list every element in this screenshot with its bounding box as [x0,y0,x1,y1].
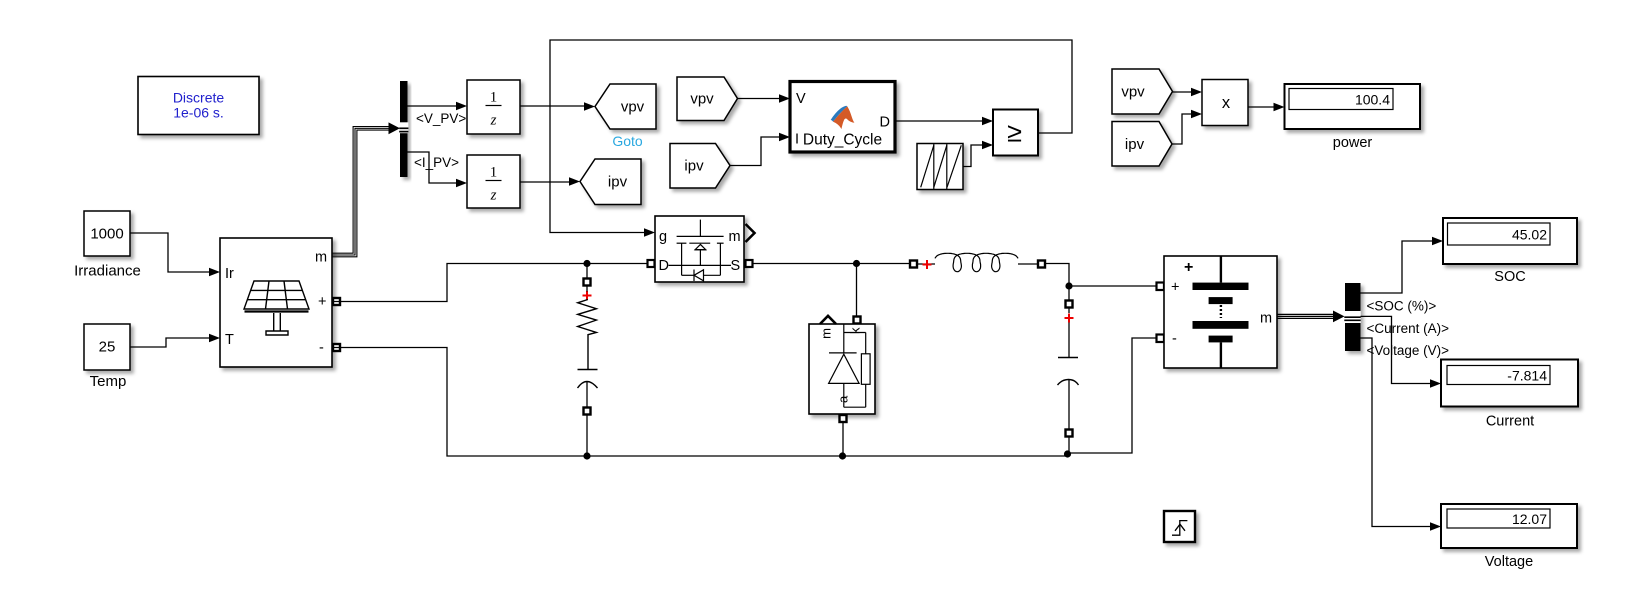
svg-text:-7.814: -7.814 [1507,368,1547,384]
Goto tag vpv [595,84,656,149]
inductor coil [918,253,1038,271]
battery icon [1193,256,1249,368]
unit delay block 2 (1/z) [467,155,520,208]
svg-text:T: T [225,332,234,348]
svg-text:<I_PV>: <I_PV> [414,155,459,170]
wire bus selector 2 to Current display [1361,316,1442,387]
svg-text:a: a [836,395,851,403]
svg-text:vpv: vpv [621,99,645,116]
PV array solar panel icon [244,281,309,335]
inductor left port [910,261,917,268]
output capacitor branch [1058,286,1079,454]
node junction bottom rail at output capacitor [1064,450,1071,457]
svg-text:ipv: ipv [1125,136,1145,153]
wire unit delay 1 to Goto vpv [520,102,595,111]
svg-text:Temp: Temp [90,373,127,390]
svg-text:100.4: 100.4 [1355,92,1390,108]
svg-text:m: m [729,229,741,245]
svg-text:V: V [796,91,806,107]
svg-text:1000: 1000 [90,226,123,243]
diode m measurement chevron [820,316,836,324]
From tag ipv (left) [670,144,730,189]
wire inductor to battery + [1046,264,1157,287]
svg-text:Duty_Cycle: Duty_Cycle [803,132,882,149]
wire bus selector 1 out1 to unit delay 1 [408,102,468,111]
svg-text:Goto: Goto [612,133,643,149]
MATLAB logo in Duty_Cycle [831,106,855,129]
svg-text:z: z [490,113,497,129]
svg-text:<Voltage (V)>: <Voltage (V)> [1367,343,1450,358]
svg-text:+: + [1171,280,1179,296]
wire Temp to PV T [130,334,220,347]
svg-text:vpv: vpv [690,91,714,108]
svg-text:Voltage: Voltage [1485,554,1533,570]
svg-text:z: z [490,188,497,204]
MOSFET m output chevron [746,224,755,242]
wire diode branch down from rail [856,264,858,317]
wire MOSFET S to inductor [753,263,910,265]
From tag vpv (right) [1112,69,1173,114]
svg-text:power: power [1333,135,1373,151]
svg-text:vpv: vpv [1121,84,1145,101]
bus wire PV m to bus selector 1 [332,127,391,257]
svg-text:+: + [318,294,326,310]
From tag ipv (right) [1112,122,1172,167]
wire From vpv to product [1173,88,1203,97]
svg-text:Ir: Ir [225,266,234,282]
svg-text:x: x [1222,94,1231,112]
svg-text:1e-06 s.: 1e-06 s. [173,105,224,121]
svg-text:k: k [848,327,863,334]
svg-text:<SOC (%)>: <SOC (%)> [1367,299,1437,314]
display block power [1285,84,1421,151]
svg-text:D: D [659,258,669,274]
wire bus selector 2 to Voltage display [1361,338,1442,531]
wire product to power display [1248,103,1285,112]
svg-text:1: 1 [490,165,498,181]
diode bottom port [840,415,847,422]
svg-text:<V_PV>: <V_PV> [416,111,466,126]
wire Duty_Cycle D to relational operator [895,117,993,126]
node junction bottom rail at diode [839,452,846,459]
node junction at output capacitor top [1065,282,1072,289]
wire unit delay 2 to Goto ipv [520,177,580,186]
wire From ipv to product [1172,110,1202,144]
battery + port [1157,283,1165,291]
svg-text:Irradiance: Irradiance [74,263,141,280]
svg-text:m: m [819,328,834,339]
svg-text:m: m [1260,311,1272,327]
svg-text:-: - [319,340,324,356]
wire relational operator to MOSFET g (long feedback) [550,40,1072,237]
bus selector 2 [1344,283,1360,351]
PV array block [220,238,332,367]
Goto tag ipv [580,159,641,205]
diode block [809,324,875,414]
inductor right port [1038,261,1045,268]
product block x [1202,80,1248,126]
constant block Temp 25 [84,324,130,390]
powergui block Discrete [138,77,259,135]
repeating sequence sawtooth block [917,144,963,190]
diode top port [854,317,861,324]
MOSFET D port [648,260,655,267]
svg-text:1: 1 [490,90,498,106]
svg-text:I: I [795,132,799,148]
wire sawtooth to relational operator [963,141,993,167]
wire bus selector 2 to SOC display [1361,237,1444,293]
bus wire battery m to bus selector 2 [1277,314,1336,318]
display block Current [1441,360,1578,430]
svg-text:ipv: ipv [608,174,628,191]
svg-text:25: 25 [99,339,116,356]
svg-text:SOC: SOC [1494,269,1525,285]
wire battery - return to bottom rail [1068,338,1157,453]
svg-text:g: g [659,229,667,245]
wire bus selector 1 out2 to unit delay 2 [408,152,468,187]
bus selector 1 [399,81,408,177]
wire PV - down to bottom rail [332,348,1068,457]
svg-text:S: S [731,258,741,274]
wire From ipv to Duty_Cycle I [730,133,790,166]
MOSFET S port [746,260,753,267]
svg-text:12.07: 12.07 [1512,511,1547,527]
svg-text:ipv: ipv [684,158,704,175]
MOSFET icon [669,220,732,281]
battery - port [1157,335,1165,343]
inductor positive + mark [923,260,932,269]
wire diode bottom to bottom rail [842,423,844,457]
svg-text:≥: ≥ [1007,118,1022,148]
From tag vpv (left) [677,77,738,121]
PV - port [333,344,340,351]
unit delay block 1 (1/z) [467,80,520,134]
node junction on rail at diode branch [853,260,860,267]
battery block [1164,256,1277,368]
relational operator block >= [993,110,1038,156]
MOSFET block [655,216,744,282]
svg-text:D: D [880,115,890,131]
MATLAB Function block Duty_Cycle [790,82,895,153]
step block (powergui helper) [1164,511,1195,542]
display block SOC [1443,218,1577,285]
svg-text:<Current (A)>: <Current (A)> [1367,321,1450,336]
svg-text:Discrete: Discrete [173,90,225,106]
wire PV + to MOSFET D rail [332,264,647,302]
display block Voltage [1441,504,1577,570]
constant block Irradiance 1000 [74,211,141,280]
svg-text:Current: Current [1486,414,1534,430]
PV + port [333,298,340,305]
svg-text:-: - [1172,331,1177,347]
svg-text:m: m [315,250,327,266]
svg-text:+: + [1184,259,1193,276]
wire From vpv to Duty_Cycle V [738,94,791,103]
wire Irradiance to PV Ir [130,233,220,276]
RC snubber branch (series R and C) [578,264,598,457]
svg-text:45.02: 45.02 [1512,227,1547,243]
node junction bottom rail at RC branch [583,452,590,459]
node junction on D rail at RC branch [583,260,590,267]
